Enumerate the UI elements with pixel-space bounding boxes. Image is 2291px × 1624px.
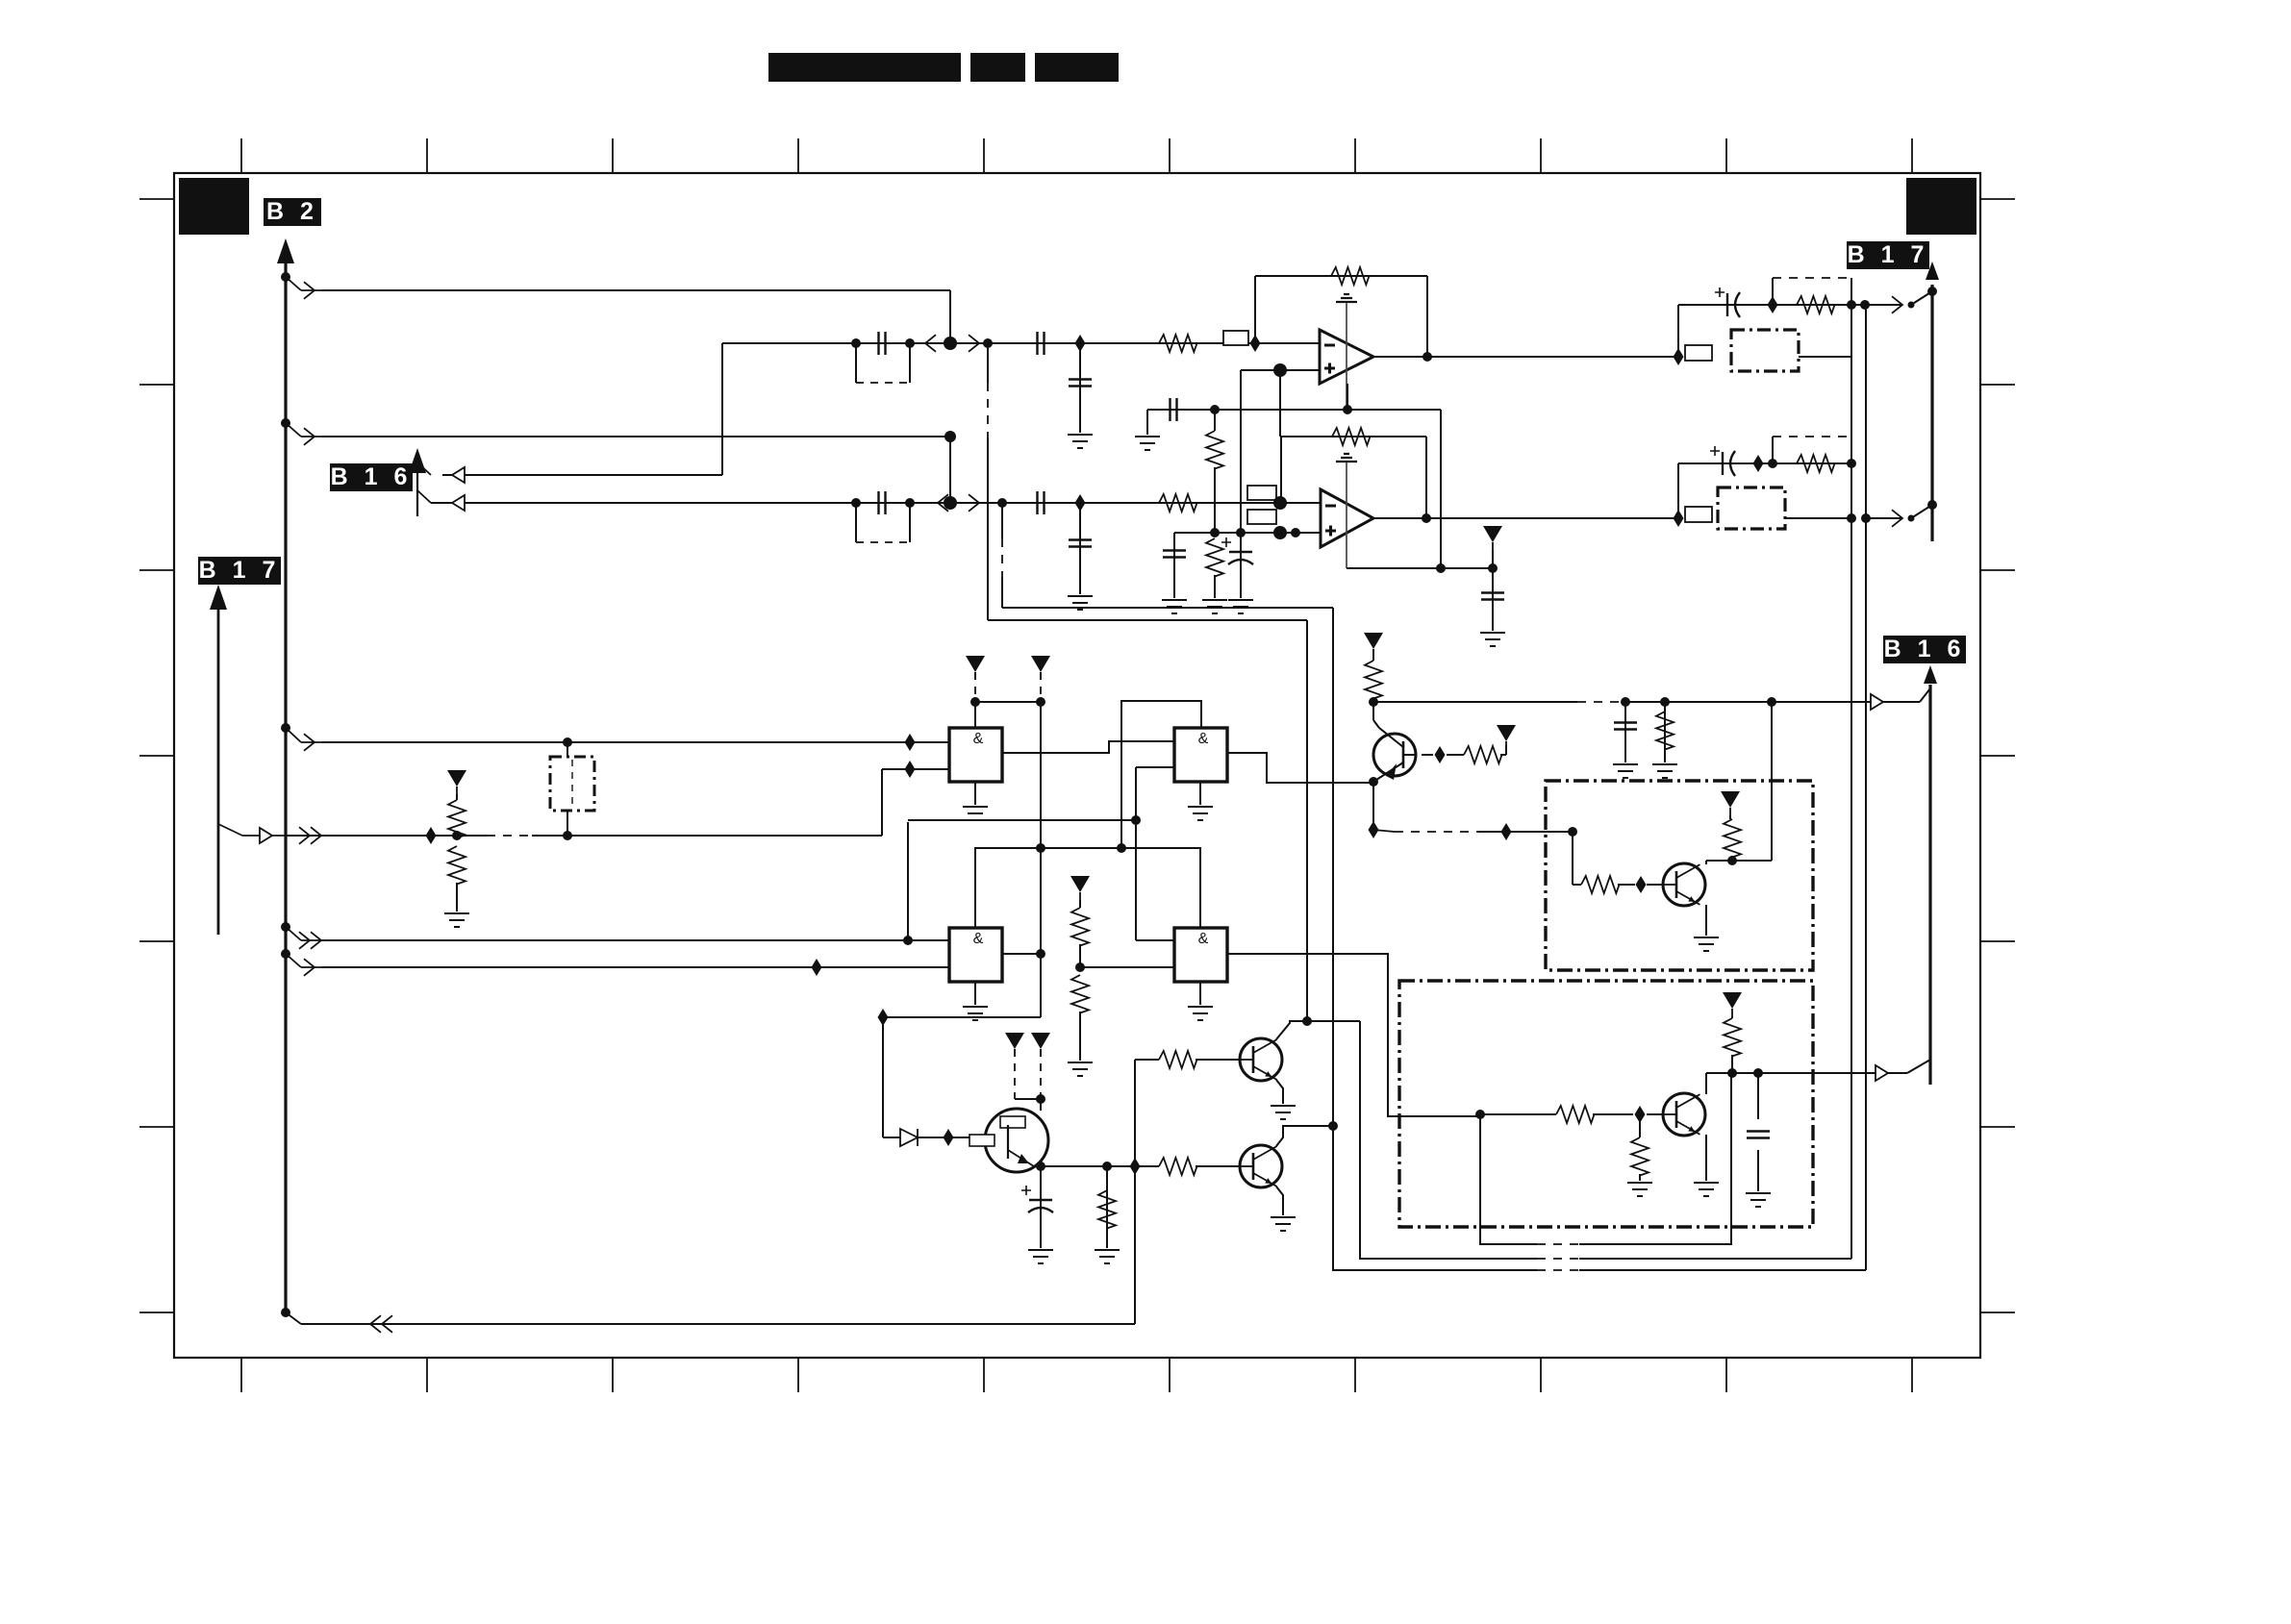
- svg-text:&: &: [1198, 731, 1209, 747]
- svg-text:B 1 6: B 1 6: [331, 463, 413, 490]
- svg-text:&: &: [973, 931, 984, 947]
- svg-text:&: &: [973, 731, 984, 747]
- svg-text:B 1 7: B 1 7: [199, 557, 281, 584]
- svg-text:B 2: B 2: [266, 198, 318, 225]
- svg-text:&: &: [1198, 931, 1209, 947]
- svg-text:B 1 6: B 1 6: [1884, 636, 1966, 662]
- svg-text:B 1 7: B 1 7: [1848, 241, 1929, 268]
